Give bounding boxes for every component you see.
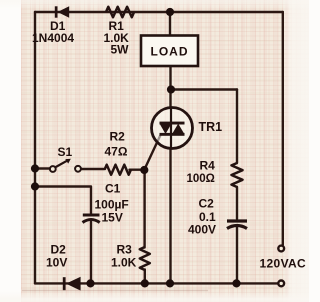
capacitor C2 (227, 221, 247, 229)
svg-text:D2: D2 (51, 243, 67, 257)
svg-text:100Ω: 100Ω (187, 173, 215, 185)
wire: C2 to bottom rail (236, 227, 238, 283)
resistor R2 (105, 165, 131, 175)
svg-text:10V: 10V (46, 256, 67, 270)
terminal: 120VAC neutral (278, 281, 284, 287)
svg-text:R4: R4 (200, 159, 216, 173)
wire: left rail (34, 12, 36, 283)
svg-text:C2: C2 (199, 197, 215, 211)
LOAD box (141, 36, 198, 67)
junction: TR1 node to R4 branch (167, 85, 175, 93)
triac TR1 (152, 108, 193, 149)
svg-text:R2: R2 (110, 130, 126, 144)
resistor R4 (232, 163, 243, 187)
junction: left rail at C1 branch (31, 182, 39, 190)
wire: R2 to gate node (130, 168, 145, 170)
junction: bottom rail at TR1 (166, 279, 174, 287)
svg-text:400V: 400V (188, 223, 216, 237)
wire: left rail to switch S1 (35, 167, 50, 169)
junction: top bus / LOAD (166, 8, 174, 16)
terminal: 120VAC hot (278, 246, 284, 252)
svg-text:15V: 15V (102, 211, 123, 225)
wire: gate node down to R3 (143, 170, 145, 248)
junction: gate node (140, 166, 148, 174)
wire: R4 to C2 (236, 187, 238, 219)
svg-text:TR1: TR1 (199, 120, 223, 134)
wire: bottom rail (35, 282, 278, 284)
junction: bottom rail at C1 (86, 279, 94, 287)
scan artifact line (faint) (22, 290, 208, 292)
wire: left rail to C1 (35, 187, 91, 214)
svg-text:100µF: 100µF (95, 198, 129, 212)
svg-text:R3: R3 (117, 243, 133, 257)
svg-text:1N4004: 1N4004 (32, 31, 74, 45)
svg-text:LOAD: LOAD (151, 45, 189, 59)
wire: TR1 MT1 to bottom rail (169, 149, 171, 284)
wire: R3 to bottom rail (144, 270, 146, 284)
zener diode D2 (63, 277, 81, 291)
resistor R1 (106, 7, 134, 17)
svg-text:C1: C1 (105, 182, 121, 196)
wire: branch node to R4 column (171, 88, 237, 90)
svg-text:120VAC: 120VAC (260, 257, 307, 271)
wire: load column from top bus (169, 12, 171, 36)
svg-text:47Ω: 47Ω (105, 145, 128, 159)
wire: gate of TR1 (144, 135, 160, 170)
wire: R4 column upper (236, 90, 238, 164)
wire: C1 to bottom rail (90, 222, 92, 284)
wire: right rail (282, 12, 284, 245)
svg-text:1.0K: 1.0K (111, 256, 137, 270)
switch S1 (50, 159, 81, 172)
resistor R3 (140, 247, 150, 270)
wire: LOAD to TR1 MT2 (169, 66, 171, 108)
wire: S1 to R2 (81, 168, 105, 170)
capacitor C1 (83, 215, 100, 223)
junction: left rail at S1 (31, 164, 39, 172)
svg-text:S1: S1 (58, 145, 73, 159)
junction: bottom rail at C2 (232, 279, 240, 287)
diode D1 (55, 6, 69, 17)
wire: top bus (35, 11, 283, 13)
junction: bottom rail at R3 (141, 279, 149, 287)
svg-text:5W: 5W (111, 43, 130, 57)
